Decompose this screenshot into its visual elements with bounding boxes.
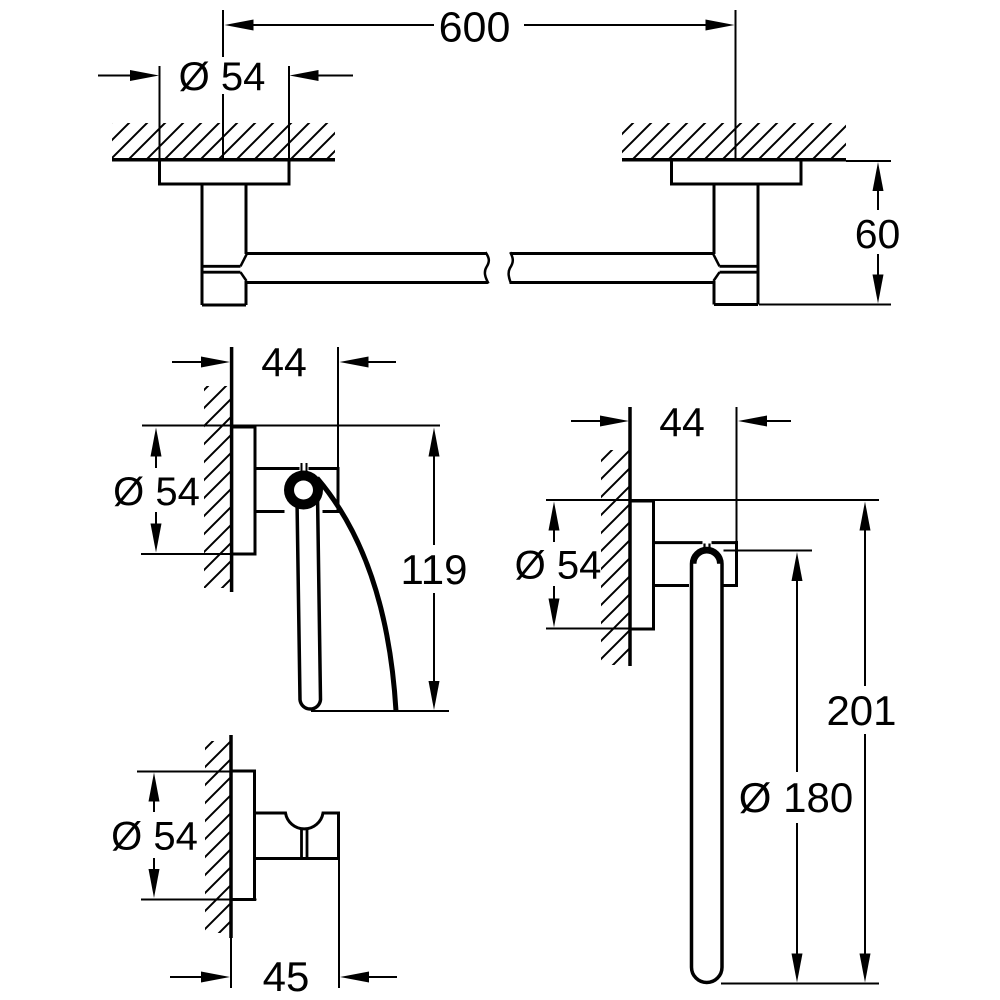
svg-text:201: 201: [826, 687, 896, 734]
top extension line D180: [724, 550, 813, 552]
towel ring inner top arc: [695, 552, 719, 564]
extension line right of 45: [338, 860, 340, 988]
extension line right of 44 (ring): [736, 407, 738, 543]
dimension D54 line (ring): [549, 502, 560, 628]
dimension D180 line: [792, 552, 803, 983]
left wall flange: [160, 160, 290, 184]
curved flap: [317, 478, 396, 711]
shared top extension line (D54 / 119): [142, 425, 440, 427]
bottom extension line D54 (ring): [546, 628, 646, 630]
wall section (hatched, vertical): [205, 735, 231, 988]
hook centre double lines: [302, 829, 308, 857]
right mounting post: [714, 184, 758, 305]
svg-text:Ø 54: Ø 54: [515, 543, 602, 587]
svg-text:44: 44: [261, 340, 307, 386]
dimension 60 extension lines: [759, 161, 891, 305]
dimension 201 line: [860, 502, 871, 983]
dimension D54 top arrows: [98, 70, 353, 81]
dimension 600 line: [225, 20, 735, 31]
bottom extension line D54 (hook): [141, 899, 257, 901]
wall section (hatched, vertical): [601, 407, 630, 666]
wall section right (hatched): [622, 123, 846, 160]
pivot pin ticks: [302, 463, 307, 471]
paper holder post: [255, 467, 338, 513]
paper holder flange: [232, 427, 255, 554]
top extension line D54 (hook): [137, 771, 233, 773]
bottom extension line (ring): [721, 983, 879, 985]
shared top extension line (D54 / 201): [546, 499, 879, 501]
extension lines flange edges top view: [160, 66, 290, 161]
dimension 119 line: [429, 428, 440, 711]
ring flange: [630, 501, 654, 629]
right wall flange: [672, 160, 802, 184]
right collar detail: [714, 255, 759, 282]
svg-text:Ø 54: Ø 54: [111, 814, 198, 858]
svg-text:45: 45: [263, 953, 310, 1000]
hook body: [255, 813, 339, 859]
svg-text:60: 60: [855, 211, 901, 257]
dimension 60 line and arrows: [873, 162, 884, 304]
svg-text:Ø 54: Ø 54: [179, 55, 266, 99]
towel bar right segment: [509, 252, 714, 283]
svg-text:600: 600: [439, 3, 511, 51]
extension line right (bar centre right): [735, 10, 737, 160]
dimension 45 arrows: [170, 972, 397, 983]
left mounting post: [202, 184, 246, 305]
wall section left (hatched): [112, 123, 335, 160]
bottom extension line 119: [311, 710, 449, 712]
roll holder loop: [297, 480, 321, 709]
towel ring band: [692, 549, 723, 983]
dimension 44 arrows (ring): [571, 416, 791, 427]
pivot boss (black ring): [284, 471, 323, 510]
svg-text:119: 119: [401, 546, 468, 593]
wall section (hatched, vertical): [204, 347, 232, 592]
ring post: [654, 541, 737, 587]
svg-text:Ø 180: Ø 180: [739, 774, 853, 821]
svg-text:Ø 54: Ø 54: [113, 470, 200, 514]
towel bar left segment: [246, 252, 489, 283]
bottom extension line D54 (paper holder): [141, 553, 257, 555]
hook flange: [231, 771, 255, 900]
extension line left (bar centre left): [222, 10, 224, 160]
left collar detail: [202, 255, 247, 282]
dimension D54 line (paper holder): [151, 428, 162, 553]
extension line right of 44: [337, 347, 339, 468]
svg-text:44: 44: [659, 400, 705, 446]
dimension 44 arrows: [172, 357, 396, 368]
dimension D54 line (hook): [149, 773, 160, 899]
ring pin ticks: [705, 544, 710, 552]
